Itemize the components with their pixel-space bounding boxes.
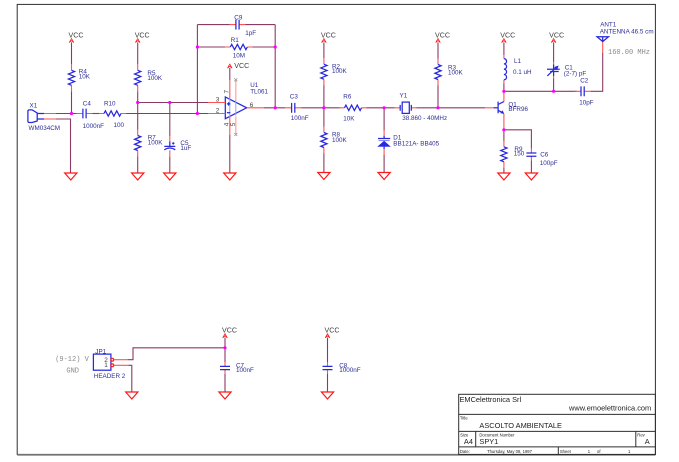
wire pin 4 to ground (229, 135, 231, 173)
wire VCC to node (224, 338, 226, 348)
svg-text:3: 3 (216, 96, 220, 103)
svg-text:ANT1: ANT1 (600, 22, 617, 29)
wire C5 top (169, 103, 171, 137)
ground (mic) (65, 173, 77, 180)
capacitor C4 (77, 109, 93, 119)
VCC symbol (R5) (135, 39, 140, 43)
connector JP1 header (93, 354, 113, 370)
wire R1 right (252, 46, 275, 48)
svg-text:VCC: VCC (435, 32, 450, 40)
crystal Y1 (395, 102, 417, 113)
svg-text:C2: C2 (580, 78, 589, 85)
op-amp pin 6 lead (247, 107, 264, 109)
no-connect X mark (234, 133, 237, 136)
wire VCC to pin 7 (229, 68, 231, 80)
wire VCC to R5 (137, 42, 139, 64)
svg-text:C6: C6 (540, 152, 549, 159)
wire R2 to junction (323, 85, 325, 126)
ground (C8) (321, 392, 333, 399)
svg-text:JP1: JP1 (95, 349, 106, 356)
wire R5 to R7 (137, 91, 139, 129)
svg-text:1uF: 1uF (180, 145, 191, 152)
wire D1 top (383, 108, 385, 130)
op-amp internal power lines (230, 98, 236, 117)
ground (JP1) (126, 392, 138, 399)
svg-text:1pF: 1pF (245, 30, 256, 37)
antenna ANT1 lead (602, 42, 604, 54)
svg-text:Y1: Y1 (400, 92, 408, 99)
svg-text:BB121A- BB405: BB121A- BB405 (393, 141, 439, 148)
node junction feedback/output (274, 106, 277, 109)
capacitor C5 (polarized) (164, 141, 175, 151)
svg-text:1000nF: 1000nF (83, 123, 105, 130)
svg-text:100: 100 (114, 122, 125, 129)
wire L1 to collector node (503, 83, 505, 91)
svg-text:10M: 10M (233, 53, 245, 60)
svg-text:100pF: 100pF (540, 160, 558, 167)
svg-text:150: 150 (514, 151, 525, 158)
svg-text:VCC: VCC (500, 32, 515, 40)
wire mic top pin to C4 (56, 113, 77, 115)
wire C7 to ground (224, 374, 226, 392)
VCC symbol (C7) (223, 334, 228, 338)
svg-text:VCC: VCC (321, 32, 336, 40)
wire C8 to ground (327, 374, 329, 392)
resistor R10 (99, 111, 126, 116)
svg-text:5: 5 (230, 122, 237, 126)
wire feedback left vertical (196, 25, 198, 114)
wire pin 1 to ground (128, 365, 132, 392)
wire VCC to R2 (323, 42, 325, 58)
svg-text:ANTENNA 46.5 cm: ANTENNA 46.5 cm (600, 29, 654, 36)
svg-text:10K: 10K (343, 115, 355, 122)
svg-text:1: 1 (104, 362, 108, 369)
svg-text:Title: Title (460, 416, 468, 421)
svg-text:X1: X1 (30, 102, 38, 109)
resistor R8 (321, 127, 327, 154)
VCC symbol (R4) (69, 39, 74, 43)
node junction feedback/pin2 (196, 112, 199, 115)
wire node to C7 (224, 348, 226, 362)
svg-text:160.00 MHz: 160.00 MHz (608, 49, 650, 57)
wire R9 to ground (503, 168, 505, 173)
wire C9 right (246, 24, 276, 26)
node junction D1 (383, 106, 386, 109)
svg-text:R6: R6 (343, 94, 352, 101)
ground (D1) (378, 173, 390, 180)
ground (C6) (525, 173, 537, 180)
svg-text:10pF: 10pF (579, 99, 594, 106)
node junction divider/pin3 wire (136, 101, 139, 104)
wire VCC to L1 (503, 42, 505, 55)
wire VCC to C1 (553, 42, 555, 62)
JP1 pin 1 lead (114, 364, 129, 366)
resistor R2 (321, 58, 327, 85)
wire VCC to R3 (437, 42, 439, 58)
svg-text:A4: A4 (464, 437, 473, 446)
svg-text:100nF: 100nF (236, 367, 254, 374)
wire R3 to junction (437, 86, 439, 108)
antenna ANT1 (597, 37, 609, 42)
ground (C5) (164, 173, 176, 180)
wire C4 to R10 (93, 113, 100, 115)
svg-text:C3: C3 (290, 93, 299, 100)
frame bottom thick line (17, 454, 655, 456)
no-connect X mark (234, 78, 237, 81)
ground (R7) (132, 173, 144, 180)
node junction collector (502, 90, 505, 93)
wire R1 left (197, 46, 225, 48)
capacitor C6 (526, 149, 536, 161)
wire pin3 bias line (138, 102, 208, 104)
inductor L1 (504, 55, 507, 83)
wire Y1 to Q1 (417, 107, 486, 109)
svg-text:www.emoelettronica.com: www.emoelettronica.com (568, 404, 651, 413)
node junction mic/R4/C4 (70, 112, 73, 115)
svg-text:0.1 uH: 0.1 uH (513, 69, 532, 76)
capacitor C7 (220, 362, 230, 374)
capacitor C3 (285, 103, 301, 113)
op-amp minus sign (227, 112, 230, 114)
svg-text:C9: C9 (234, 15, 243, 22)
svg-text:R10: R10 (104, 101, 116, 108)
X1 pin leads (44, 114, 56, 120)
svg-text:VCC: VCC (222, 327, 237, 335)
svg-text:ASCOLTO AMBIENTALE: ASCOLTO AMBIENTALE (479, 421, 562, 430)
node junction C5 tap (168, 101, 171, 104)
capacitor C9 (230, 20, 246, 30)
wire emitter to R9 (503, 130, 505, 141)
wire C3 to R6 (301, 107, 339, 109)
node junction R1 left (196, 45, 199, 48)
wire C6 to ground (530, 161, 532, 173)
svg-text:7: 7 (223, 90, 230, 94)
svg-text:SPY1: SPY1 (479, 437, 498, 446)
VCC symbol (R2) (322, 39, 327, 43)
JP1 pin 2 lead (114, 359, 128, 361)
svg-text:100K: 100K (147, 75, 163, 82)
svg-text:(9-12) V: (9-12) V (55, 356, 89, 364)
resistor R9 (501, 141, 507, 168)
resistor R5 (135, 64, 141, 91)
capacitor C8 (323, 362, 333, 374)
node junction R2/R8 (322, 106, 325, 109)
VCC symbol (L1) (502, 39, 507, 43)
ground (C7) (219, 392, 231, 399)
wire C2 to antenna (591, 53, 603, 91)
op-amp U1 pin 5 no-connect (235, 80, 237, 100)
capacitor C2 (575, 86, 591, 96)
wire mic bottom pin to ground (56, 119, 71, 173)
svg-text:Thursday, May 08, 1997: Thursday, May 08, 1997 (487, 449, 533, 454)
wire C1 to node (553, 79, 555, 92)
svg-text:1000nF: 1000nF (339, 367, 361, 374)
svg-text:10K: 10K (79, 73, 91, 80)
ground (R8) (318, 173, 330, 180)
ground (op-amp) (224, 173, 236, 180)
VCC symbol (R3) (436, 39, 441, 43)
svg-text:BFR96: BFR96 (508, 106, 528, 113)
svg-text:VCC: VCC (69, 32, 84, 40)
title block (459, 394, 656, 454)
capacitor C1 trimmer (547, 62, 560, 78)
C5 bottom lead (169, 151, 171, 157)
wire R8 to ground (323, 154, 325, 173)
VCC symbol (C8) (325, 334, 330, 338)
svg-text:Date:: Date: (460, 449, 470, 454)
svg-text:VCC: VCC (135, 32, 150, 40)
resistor R6 (340, 105, 367, 110)
op-amp pin 1 no-connect (235, 117, 237, 135)
svg-text:HEADER 2: HEADER 2 (94, 373, 126, 380)
ground (R9) (498, 173, 510, 180)
svg-text:R1: R1 (231, 37, 240, 44)
op-amp U1 triangle (225, 97, 246, 119)
op-amp pin 2 lead (208, 113, 225, 115)
svg-text:100nF: 100nF (291, 115, 309, 122)
op-amp pin 3 lead (208, 102, 225, 104)
resistor R4 (68, 64, 74, 91)
diode D1 varactor (378, 130, 390, 155)
op-amp U1 pin 7 lead (229, 80, 231, 98)
svg-text:WM034CM: WM034CM (29, 125, 61, 132)
svg-text:2: 2 (216, 107, 220, 114)
svg-text:A: A (645, 437, 650, 446)
wire pin 2 to VCC node (128, 348, 225, 360)
svg-text:Sheet: Sheet (560, 449, 572, 454)
svg-text:100K: 100K (148, 139, 164, 146)
wire output to C3 (264, 107, 285, 109)
resistor R3 (435, 59, 441, 86)
wire R6 to Y1 (367, 107, 395, 109)
node junction R1 right (274, 45, 277, 48)
svg-text:38.860 - 40MHz: 38.860 - 40MHz (402, 115, 447, 122)
node junction emitter (502, 128, 505, 131)
wire VCC to R4 (71, 42, 73, 64)
wire C9 left (197, 24, 229, 26)
wire node to C2 (554, 90, 577, 92)
wire R4 to junction (71, 91, 73, 113)
node junction C1 (552, 90, 555, 93)
resistor R7 (135, 130, 141, 157)
VCC symbol (op-amp) (228, 64, 233, 68)
C5 top lead (169, 136, 171, 141)
svg-text:C4: C4 (83, 101, 92, 108)
wire feedback right vertical (274, 25, 276, 108)
svg-text:L1: L1 (514, 58, 522, 65)
wire R10 to op-amp pin 2 (126, 113, 208, 115)
svg-text:EMCelettronica Srl: EMCelettronica Srl (460, 395, 522, 404)
svg-text:VCC: VCC (325, 327, 340, 335)
resistor R1 (225, 44, 252, 49)
node junction R3 (436, 106, 439, 109)
transistor Q1 (485, 91, 504, 130)
node junction C7 (223, 346, 226, 349)
svg-text:VCC: VCC (234, 62, 249, 70)
svg-text:100K: 100K (332, 68, 348, 75)
wire C5 to ground (169, 157, 171, 173)
svg-text:TL061: TL061 (250, 89, 268, 96)
microphone X1 (28, 110, 44, 123)
svg-text:VCC: VCC (549, 32, 564, 40)
wire collector node to C1 node (504, 90, 554, 92)
svg-text:100K: 100K (332, 137, 348, 144)
wire R7 to ground (137, 157, 139, 174)
op-amp pin 4 lead (229, 117, 231, 135)
op-amp plus sign (227, 102, 230, 105)
wire emitter node to C6 (504, 130, 532, 149)
svg-text:100K: 100K (448, 69, 464, 76)
svg-text:GND: GND (66, 367, 79, 375)
wire VCC to C8 (327, 338, 329, 362)
wire D1 to ground (383, 155, 385, 173)
VCC symbol (C1) (551, 39, 556, 43)
